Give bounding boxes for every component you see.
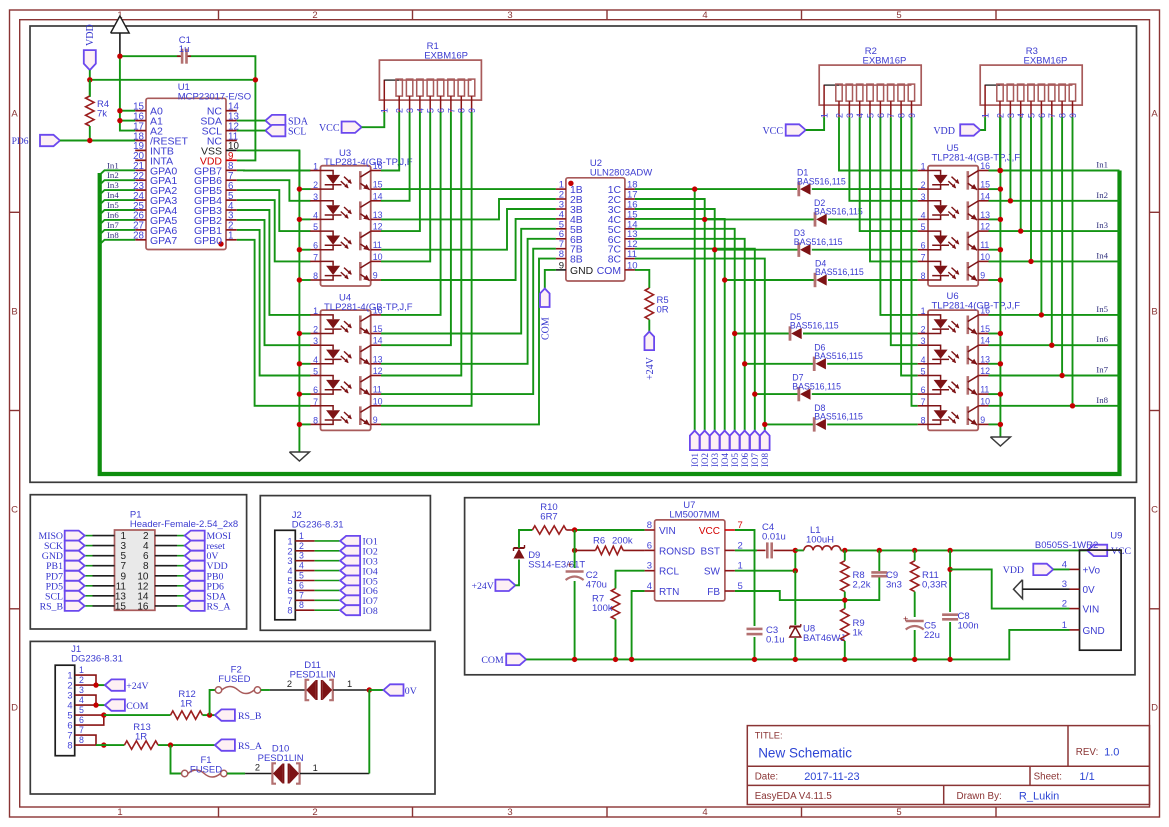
svg-text:1: 1 — [228, 231, 233, 242]
svg-text:GND: GND — [570, 266, 593, 277]
wire PD6 to /RESET — [60, 138, 135, 143]
net flag SDA — [265, 115, 308, 127]
svg-text:EXBM16P: EXBM16P — [424, 51, 468, 62]
svg-text:9: 9 — [373, 271, 378, 281]
wire emitter ground column right — [999, 117, 1001, 437]
resistor R7 100k — [611, 589, 619, 660]
svg-text:FB: FB — [707, 587, 720, 598]
svg-text:9: 9 — [559, 260, 564, 271]
resistor R11 0,33R — [911, 550, 919, 617]
net flag VCC (power out) — [1087, 545, 1131, 558]
svg-text:2: 2 — [67, 681, 72, 691]
svg-text:14: 14 — [980, 336, 990, 346]
svg-text:In3: In3 — [107, 180, 119, 190]
svg-text:Drawn By:: Drawn By: — [957, 791, 1002, 802]
svg-text:BST: BST — [701, 546, 720, 557]
label R7 100k — [592, 594, 613, 615]
svg-text:EXBM16P: EXBM16P — [863, 56, 907, 67]
svg-text:3: 3 — [313, 336, 318, 346]
wire D10 to 0V column — [300, 690, 369, 774]
net flag COM (J1) — [105, 699, 149, 712]
svg-text:15: 15 — [373, 180, 383, 190]
svg-text:8: 8 — [299, 600, 304, 610]
svg-text:D: D — [11, 703, 18, 714]
wire R1 pull-downs to U3/U4 collectors — [381, 112, 472, 406]
main schematic enclosure box — [30, 26, 1137, 482]
resistor R10 — [566, 529, 644, 531]
regulator U7 body — [655, 520, 725, 601]
svg-text:U9: U9 — [1110, 531, 1122, 542]
svg-text:200k: 200k — [612, 536, 633, 547]
svg-text:14: 14 — [373, 191, 383, 201]
svg-text:RS_A: RS_A — [238, 741, 262, 752]
connector block J2 enclosure — [260, 496, 430, 631]
svg-text:EasyEDA V4.11.5: EasyEDA V4.11.5 — [755, 791, 833, 802]
wire U7 VCC to C3 column — [735, 530, 755, 659]
label U3 TLP281-4 — [324, 148, 413, 168]
svg-text:VDD: VDD — [85, 24, 96, 46]
svg-text:COM: COM — [541, 317, 552, 340]
wire In1-In8 to GPA pins — [100, 170, 136, 244]
svg-text:B: B — [1151, 307, 1157, 318]
junction A-column — [117, 54, 122, 124]
svg-text:+: + — [903, 614, 908, 624]
label R5 0R — [657, 295, 669, 316]
svg-text:EXBM16P: EXBM16P — [1024, 56, 1068, 67]
pins U1 right 1-14 — [194, 102, 239, 247]
connector P1 header body — [115, 530, 155, 610]
svg-text:9: 9 — [980, 415, 985, 425]
svg-text:8C: 8C — [608, 255, 622, 266]
pins U7 — [645, 520, 743, 598]
svg-text:12: 12 — [373, 222, 383, 232]
label F1 FUSED — [190, 755, 222, 775]
pins U2 — [556, 180, 638, 277]
ground symbol left — [289, 452, 309, 461]
svg-text:FUSED: FUSED — [218, 674, 250, 685]
wire LED cathode ground column — [297, 150, 311, 452]
svg-text:100uH: 100uH — [806, 535, 834, 546]
label R4 7k — [97, 99, 109, 120]
label L1 100uH — [806, 525, 834, 546]
net flag RS_B — [215, 709, 262, 722]
svg-text:8: 8 — [921, 271, 926, 281]
svg-text:R_Lukin: R_Lukin — [1019, 791, 1059, 803]
inductor L1 — [795, 546, 840, 551]
svg-text:BAT46WJ: BAT46WJ — [803, 633, 845, 644]
connector block J1 enclosure — [30, 641, 435, 794]
svg-text:RS_B: RS_B — [238, 711, 262, 722]
svg-text:Date:: Date: — [755, 772, 778, 783]
svg-text:14: 14 — [373, 336, 383, 346]
svg-text:SS14-E3/61T: SS14-E3/61T — [528, 560, 585, 571]
svg-text:2: 2 — [312, 10, 317, 21]
svg-text:TLP281-4(GB-TP,J,F: TLP281-4(GB-TP,J,F — [932, 300, 1021, 311]
svg-text:1R: 1R — [180, 699, 192, 710]
svg-text:In7: In7 — [107, 220, 119, 230]
svg-text:9: 9 — [373, 415, 378, 425]
connector J2 body — [275, 530, 296, 620]
svg-text:BAS516,115: BAS516,115 — [814, 207, 863, 217]
net flags IO1-IO8 — [690, 431, 770, 451]
svg-text:10: 10 — [980, 396, 990, 406]
svg-text:2: 2 — [921, 180, 926, 190]
svg-text:DG236-8.31: DG236-8.31 — [292, 520, 344, 531]
svg-text:BAS516,115: BAS516,115 — [815, 267, 864, 277]
resistor network R3 — [980, 65, 1082, 118]
label J2 DG236-8.31 — [292, 510, 344, 531]
svg-text:IO4: IO4 — [720, 453, 730, 467]
svg-text:3: 3 — [507, 807, 512, 818]
svg-text:3n3: 3n3 — [886, 580, 902, 591]
dc-dc module U9 body — [1080, 550, 1122, 650]
capacitor C3 0.1u — [747, 629, 763, 634]
svg-text:A: A — [1151, 109, 1158, 120]
svg-text:B: B — [11, 307, 17, 318]
svg-text:PESD1LIN: PESD1LIN — [290, 670, 336, 681]
svg-text:C: C — [1151, 505, 1158, 516]
svg-text:100k: 100k — [592, 603, 613, 614]
label R12 1R — [178, 689, 195, 710]
net flag RS_A — [215, 739, 262, 752]
svg-text:B0505S-1WR2: B0505S-1WR2 — [1035, 540, 1098, 551]
label P1 Header-Female — [130, 510, 238, 531]
fuse F2 — [215, 687, 260, 694]
svg-text:5: 5 — [79, 705, 84, 715]
net flags J2 IO — [340, 536, 360, 615]
labels IO1-IO8 — [690, 453, 770, 467]
svg-text:FUSED: FUSED — [190, 764, 222, 775]
label U8 BAT46WJ — [803, 624, 845, 645]
diode D10 PESD1LIN — [272, 763, 299, 783]
net labels IO1-IO8 (J2) — [363, 537, 378, 617]
diodes D1-D8 BAS516 — [790, 182, 827, 432]
label U2 ULN2803ADW — [590, 158, 652, 178]
svg-text:Header-Female-2.54_2x8: Header-Female-2.54_2x8 — [130, 519, 238, 530]
svg-text:COM: COM — [481, 655, 504, 666]
net flag VDD (top left) — [84, 24, 96, 70]
svg-text:COM: COM — [597, 266, 621, 277]
label C8 100n — [958, 611, 979, 632]
svg-text:RS_B: RS_B — [40, 601, 64, 612]
svg-text:IO2: IO2 — [700, 453, 710, 467]
svg-text:In5: In5 — [1096, 304, 1108, 314]
svg-text:VCC: VCC — [762, 126, 783, 137]
wire R3 pull-ups to collector rows — [1000, 117, 1073, 406]
connector block P1 enclosure — [30, 495, 246, 629]
labels D1-D8 BAS516,115 — [790, 168, 864, 422]
wire VDD horizontal rail — [90, 80, 256, 161]
svg-text:DG236-8.31: DG236-8.31 — [71, 654, 123, 665]
svg-text:6: 6 — [921, 385, 926, 395]
svg-text:7: 7 — [921, 252, 926, 262]
label R8 2,2k — [853, 570, 871, 591]
svg-text:15: 15 — [980, 180, 990, 190]
svg-text:TLP281-4(GB-TP,J,F: TLP281-4(GB-TP,J,F — [932, 152, 1021, 163]
net flag SCL — [265, 125, 306, 137]
svg-text:8: 8 — [559, 249, 564, 260]
net labels In1-In8 left — [107, 160, 119, 240]
svg-text:6: 6 — [287, 586, 292, 596]
svg-text:VIN: VIN — [1083, 605, 1100, 616]
svg-text:1: 1 — [921, 162, 926, 172]
supply arrow symbol (top) — [111, 16, 130, 56]
svg-text:2: 2 — [921, 325, 926, 335]
svg-text:In6: In6 — [107, 210, 119, 220]
svg-text:PESD1LIN: PESD1LIN — [258, 753, 304, 764]
svg-text:TLP281-4(GB-TP,J,F: TLP281-4(GB-TP,J,F — [324, 302, 413, 313]
label U5 TLP281-4 — [932, 143, 1021, 163]
svg-text:VCC: VCC — [699, 526, 720, 537]
svg-text:RTN: RTN — [659, 587, 679, 598]
wire SDA SCL — [237, 121, 266, 131]
junction dots output risers — [692, 186, 768, 427]
svg-text:2,2k: 2,2k — [853, 580, 871, 591]
svg-text:1.0: 1.0 — [1104, 747, 1119, 759]
svg-text:13: 13 — [373, 210, 383, 220]
diode D9 SS14 schottky — [514, 530, 533, 585]
svg-text:IO8: IO8 — [760, 453, 770, 467]
svg-text:5: 5 — [313, 222, 318, 232]
wire VSS to ground column — [237, 150, 300, 188]
svg-text:COM: COM — [126, 701, 149, 712]
svg-text:8B: 8B — [570, 255, 583, 266]
svg-text:In7: In7 — [1096, 365, 1108, 375]
svg-text:12: 12 — [980, 366, 990, 376]
svg-text:VDD: VDD — [1003, 565, 1024, 576]
diode D11 PESD1LIN — [306, 680, 333, 700]
svg-text:3: 3 — [287, 556, 292, 566]
label D10 PESD1LIN — [258, 744, 304, 765]
svg-text:BAS516,115: BAS516,115 — [792, 381, 841, 391]
svg-text:REV:: REV: — [1076, 747, 1099, 758]
capacitor C2 470u — [566, 560, 584, 580]
svg-text:4: 4 — [702, 10, 707, 21]
svg-text:In4: In4 — [1096, 250, 1108, 260]
net flag VDD (U9) — [1003, 564, 1054, 577]
wire F2 to D11 — [261, 679, 306, 690]
wire SW to catch node — [735, 548, 798, 574]
svg-text:1k: 1k — [853, 628, 863, 639]
svg-text:13: 13 — [980, 210, 990, 220]
transistor-array U2 body — [566, 178, 625, 281]
ground symbol right — [990, 437, 1010, 446]
wire D11 to 0V — [333, 679, 383, 693]
svg-text:0R: 0R — [657, 305, 669, 316]
svg-text:TITLE:: TITLE: — [755, 731, 783, 741]
svg-text:15: 15 — [980, 324, 990, 334]
wire BST row with C4 — [735, 549, 795, 551]
label D9 SS14-E3/61T — [528, 550, 585, 571]
svg-text:1: 1 — [347, 679, 352, 689]
net flag VCC (R2) — [762, 124, 805, 137]
svg-text:BAS516,115: BAS516,115 — [794, 237, 843, 247]
svg-text:In8: In8 — [107, 230, 119, 240]
svg-text:1: 1 — [287, 536, 292, 546]
wire VDD flag to rail — [89, 70, 91, 97]
svg-text:1: 1 — [79, 665, 84, 675]
wire C1 top rail — [120, 56, 256, 80]
wire R2 pull-ups to U5/U6 LED anodes — [839, 117, 918, 406]
svg-text:7: 7 — [921, 397, 926, 407]
capacitor C9 3n3 — [871, 550, 887, 576]
svg-text:In8: In8 — [1096, 395, 1108, 405]
svg-text:1: 1 — [117, 807, 122, 818]
svg-text:100n: 100n — [958, 621, 979, 632]
pins U9 — [1062, 559, 1105, 637]
wire U2 outputs with IO risers — [635, 189, 918, 431]
wire RCL to R7 — [616, 571, 645, 589]
svg-text:11: 11 — [980, 240, 989, 250]
capacitor C1 — [177, 49, 191, 64]
svg-text:0V: 0V — [1083, 585, 1096, 596]
svg-text:3: 3 — [921, 336, 926, 346]
svg-text:0.1u: 0.1u — [766, 635, 785, 646]
svg-text:11: 11 — [373, 385, 382, 395]
svg-text:3: 3 — [313, 192, 318, 202]
optocoupler U5 — [918, 161, 990, 286]
svg-text:8: 8 — [313, 271, 318, 281]
junction VDD rail — [87, 77, 258, 82]
svg-text:7: 7 — [79, 725, 84, 735]
label C5 22u — [924, 621, 940, 642]
svg-text:IO3: IO3 — [710, 453, 720, 467]
svg-text:+24V: +24V — [645, 356, 656, 380]
label U7 LM5007MM — [669, 500, 719, 520]
svg-text:1: 1 — [299, 531, 304, 541]
svg-text:15: 15 — [373, 324, 383, 334]
wire GPB0-GPB7 to optocoupler LEDs — [237, 170, 311, 405]
svg-text:11: 11 — [980, 385, 989, 395]
svg-text:8: 8 — [647, 520, 652, 531]
svg-text:2: 2 — [299, 541, 304, 551]
svg-text:R6: R6 — [593, 536, 605, 547]
net flag +24V (J1) — [105, 679, 149, 692]
svg-text:2: 2 — [313, 325, 318, 335]
svg-text:1/1: 1/1 — [1079, 771, 1094, 783]
label U6 TLP281-4 — [932, 291, 1021, 311]
svg-text:GPB0: GPB0 — [194, 235, 222, 247]
svg-text:6: 6 — [299, 580, 304, 590]
svg-text:IO6: IO6 — [740, 453, 750, 467]
svg-text:Sheet:: Sheet: — [1034, 772, 1062, 783]
resistor R6 200k — [575, 546, 645, 554]
label R6 200k — [593, 536, 633, 547]
svg-text:2: 2 — [312, 807, 317, 818]
capacitor C5 22u — [903, 614, 924, 659]
title block texts — [755, 731, 1120, 803]
svg-text:22u: 22u — [924, 630, 940, 641]
optocoupler U6 — [918, 305, 990, 430]
net flags P1 sides — [65, 531, 205, 611]
svg-text:9: 9 — [980, 271, 985, 281]
wires J1 pins 5-6 — [75, 712, 107, 725]
svg-text:ULN2803ADW: ULN2803ADW — [590, 167, 652, 178]
wires J1 pins 1-2 to +24V — [75, 675, 105, 688]
svg-text:4: 4 — [313, 210, 318, 220]
svg-text:8: 8 — [287, 606, 292, 616]
svg-text:In6: In6 — [1096, 334, 1108, 344]
label R13 1R — [133, 722, 150, 743]
resistor R9 1k — [841, 609, 849, 660]
svg-text:SCL: SCL — [288, 126, 306, 137]
svg-text:4: 4 — [287, 566, 292, 576]
svg-text:1: 1 — [1062, 620, 1067, 631]
svg-text:In5: In5 — [107, 200, 119, 210]
svg-text:12: 12 — [980, 222, 990, 232]
svg-text:12: 12 — [373, 366, 383, 376]
net flag VCC (R1) — [319, 122, 362, 135]
svg-text:3: 3 — [79, 685, 84, 695]
svg-text:5: 5 — [287, 576, 292, 586]
net flag VDD (R3) — [933, 124, 980, 137]
svg-text:470u: 470u — [586, 580, 607, 591]
svg-text:RCL: RCL — [659, 567, 679, 578]
svg-text:14: 14 — [980, 191, 990, 201]
svg-text:16: 16 — [137, 601, 149, 612]
resistor network R2 — [819, 65, 921, 118]
svg-text:RS_A: RS_A — [207, 601, 231, 612]
svg-text:IO7: IO7 — [750, 453, 760, 467]
svg-text:IO1: IO1 — [690, 453, 700, 467]
svg-text:1u: 1u — [179, 44, 190, 55]
svg-text:GPA7: GPA7 — [150, 235, 177, 247]
svg-text:VCC: VCC — [319, 123, 340, 134]
arrow symbol 0V — [1014, 580, 1070, 599]
svg-text:GND: GND — [1083, 626, 1105, 637]
svg-text:New Schematic: New Schematic — [758, 746, 852, 761]
svg-text:BAS516,115: BAS516,115 — [814, 351, 863, 361]
svg-text:13: 13 — [373, 354, 383, 364]
label R9 1k — [853, 618, 865, 639]
label R3 EXBM16P — [1024, 46, 1068, 67]
net flag 0V (J1) — [384, 684, 417, 697]
svg-text:+24V: +24V — [471, 581, 493, 592]
svg-text:5: 5 — [299, 571, 304, 581]
label U9 B0505S-1WR2 — [1035, 531, 1123, 552]
net labels In1-In8 right — [1096, 160, 1108, 405]
svg-text:3: 3 — [67, 691, 72, 701]
svg-text:10: 10 — [373, 252, 383, 262]
wire FB to divider — [735, 578, 879, 603]
svg-text:7: 7 — [299, 590, 304, 600]
fuse F1 — [182, 770, 228, 777]
optocoupler U3 — [310, 161, 382, 286]
resistor R4 — [86, 80, 94, 141]
svg-text:2: 2 — [1062, 599, 1067, 610]
wire U5/U6 collectors to In bus right — [989, 171, 1120, 406]
wire VIN branch to U9 — [950, 569, 1069, 608]
svg-text:7: 7 — [313, 397, 318, 407]
svg-text:In4: In4 — [107, 190, 119, 200]
resistor R13 — [124, 741, 158, 749]
wire catch node to U8 — [794, 571, 796, 660]
wires P1 header — [85, 536, 185, 606]
svg-text:BAS516,115: BAS516,115 — [814, 412, 863, 422]
svg-text:7k: 7k — [97, 109, 107, 120]
resistor R8 2,2k — [841, 550, 849, 608]
svg-text:5: 5 — [67, 711, 72, 721]
svg-text:5: 5 — [896, 807, 901, 818]
label C4 0.01u — [762, 522, 786, 543]
svg-text:3: 3 — [647, 561, 652, 572]
connector J1 body — [55, 665, 74, 756]
svg-text:6: 6 — [313, 241, 318, 251]
label C1 1u — [179, 35, 191, 55]
wire RS_B node up to fuse F2 — [210, 690, 216, 715]
bus In left vertical — [100, 171, 1120, 475]
svg-text:11: 11 — [373, 240, 382, 250]
